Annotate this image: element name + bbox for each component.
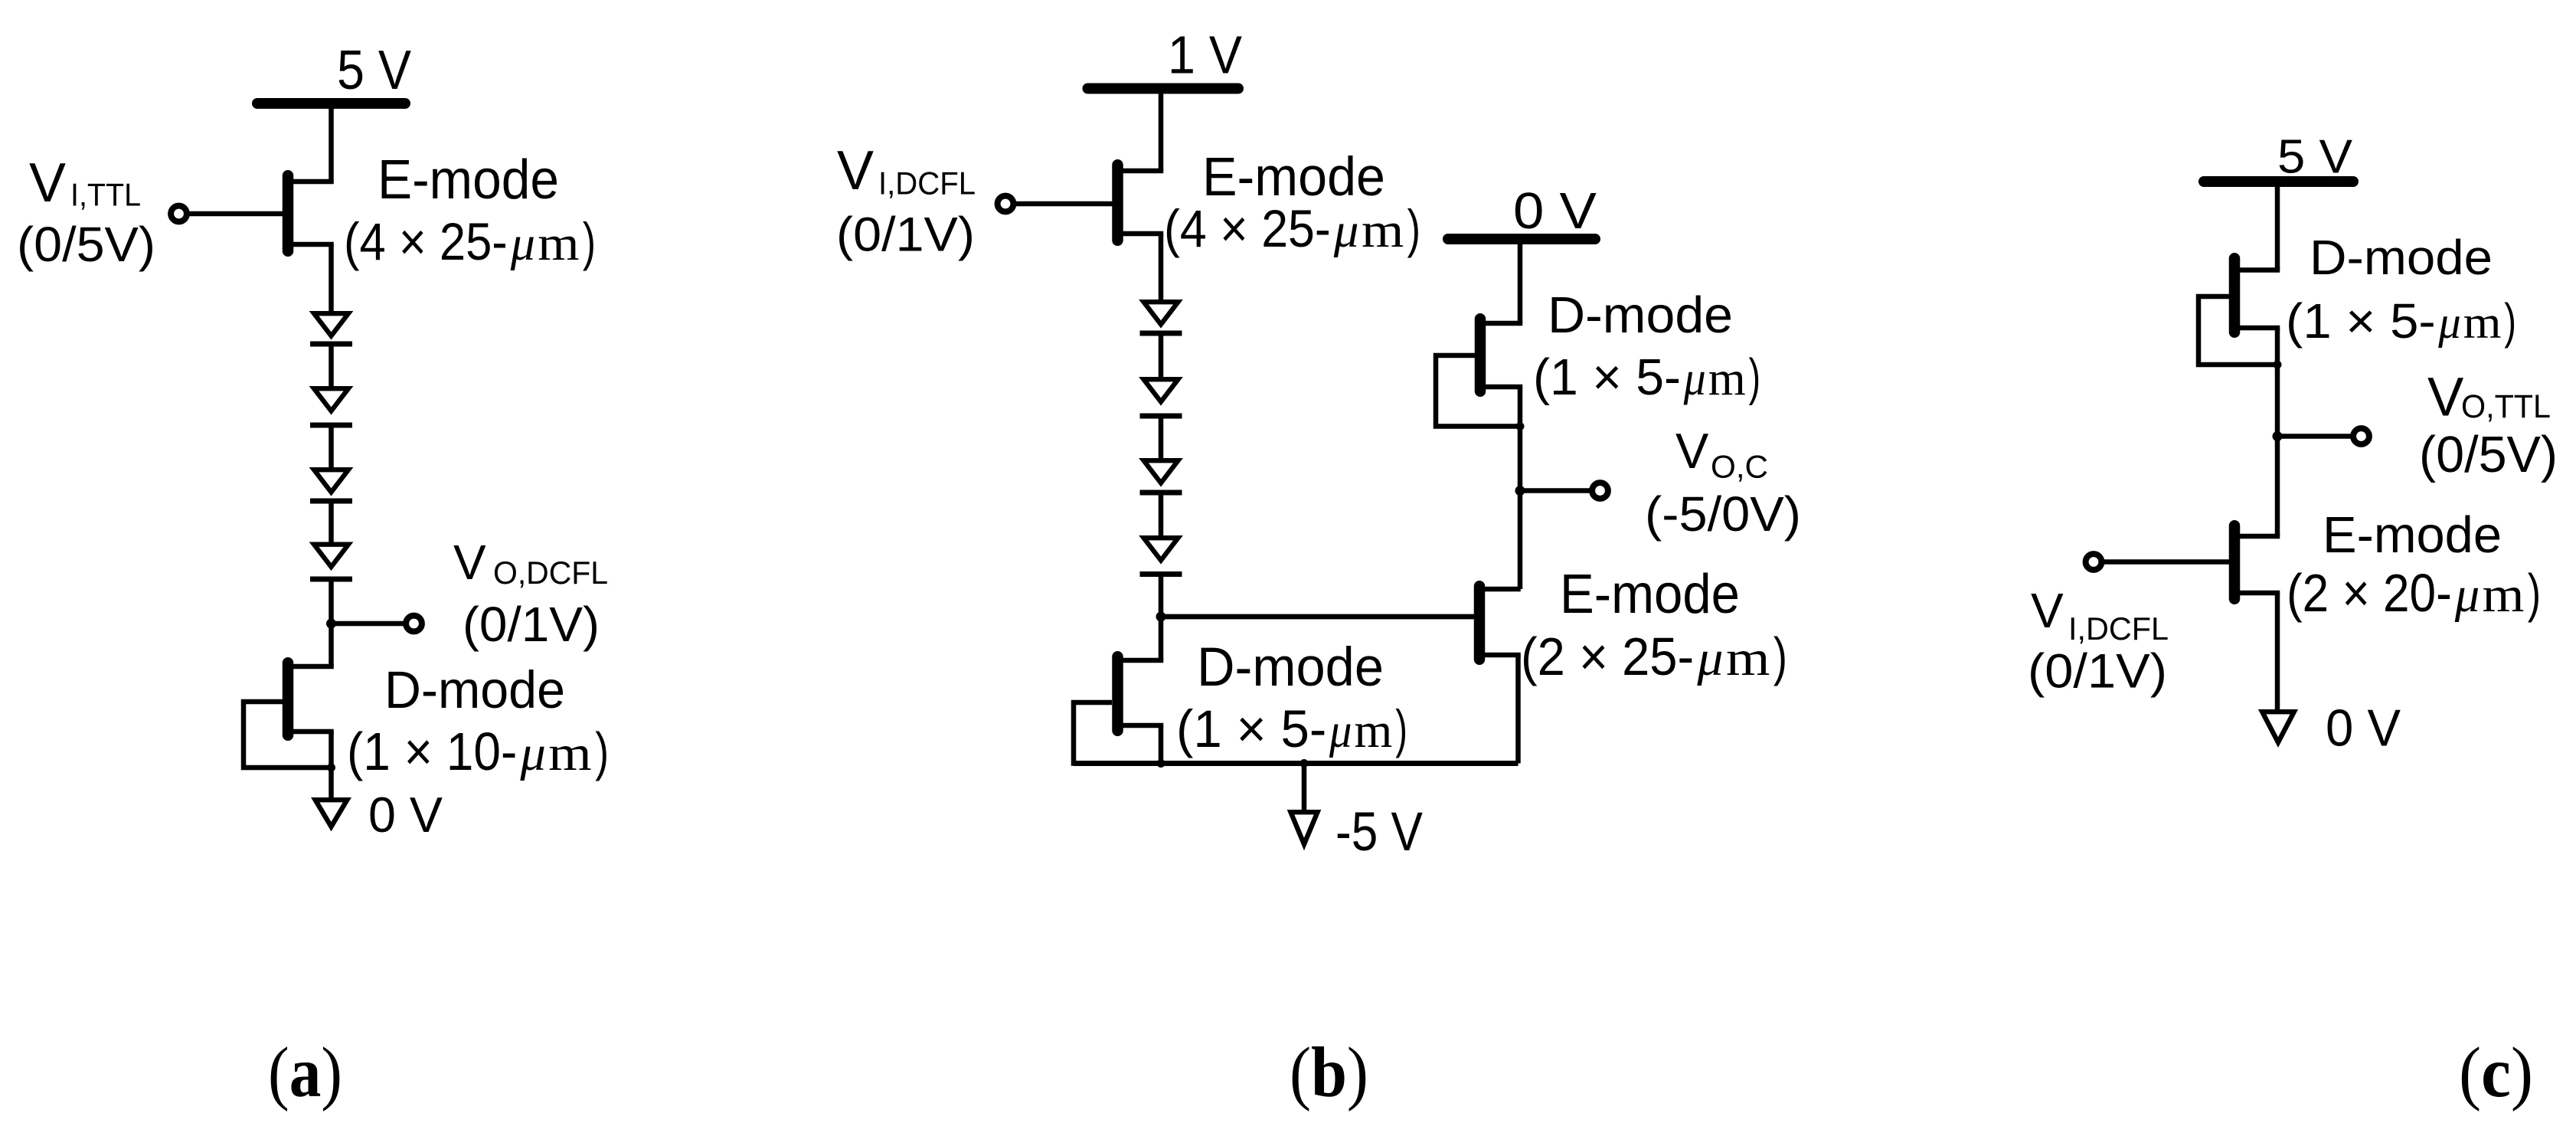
- svg-text:): ): [1407, 199, 1420, 258]
- svg-text:μ: μ: [2437, 297, 2460, 348]
- svg-text:O,C: O,C: [1711, 449, 1768, 485]
- transistor Q7 D-mode 1x5-um (c): [2198, 258, 2280, 365]
- svg-text:-5 V: -5 V: [1335, 802, 1424, 863]
- svg-text:(1 × 5-: (1 × 5-: [1533, 349, 1681, 406]
- svg-text:D-mode: D-mode: [384, 660, 565, 719]
- svg-text:(1 × 5-: (1 × 5-: [2286, 293, 2436, 349]
- power rail +5V (a): [257, 98, 405, 109]
- svg-text:m: m: [1362, 203, 1404, 258]
- svg-text:m: m: [1355, 703, 1393, 758]
- svg-text:(1 × 5-: (1 × 5-: [1176, 699, 1326, 758]
- svg-text:): ): [583, 212, 596, 271]
- wire Q3 source to diode chain (b): [1159, 234, 1164, 302]
- wire rail to Q3 drain: [1159, 89, 1164, 172]
- svg-text:(0/1V): (0/1V): [836, 208, 975, 262]
- svg-text:V: V: [453, 535, 486, 590]
- wire rail to Q7 drain: [2275, 182, 2280, 270]
- node A diode chain / gate junction (b): [1156, 612, 1166, 622]
- svg-text:m: m: [2483, 567, 2525, 623]
- wire to output terminal V_O,TTL: [2277, 434, 2351, 439]
- svg-text:(0/1V): (0/1V): [463, 597, 600, 652]
- svg-text:5 V: 5 V: [2277, 131, 2353, 184]
- wire to output terminal V_O,C: [1520, 488, 1590, 493]
- svg-text:μ: μ: [1329, 703, 1352, 758]
- svg-text:V: V: [837, 140, 874, 201]
- svg-text:D-mode: D-mode: [1197, 637, 1384, 698]
- wire rail to Q5 drain: [1518, 239, 1523, 323]
- label (1 x 5-um) (b): [1176, 699, 1407, 758]
- svg-text:): ): [595, 722, 609, 781]
- power rail +5V (c): [2204, 176, 2353, 187]
- input terminal V_I,TTL: [171, 206, 187, 222]
- svg-text:O,TTL: O,TTL: [2461, 388, 2551, 425]
- svg-text:(a): (a): [268, 1033, 342, 1112]
- node V_O,C junction: [1515, 486, 1525, 496]
- svg-text:0 V: 0 V: [1513, 182, 1597, 240]
- svg-text:0 V: 0 V: [2326, 699, 2401, 758]
- node Q5 gate-source tie (b): [1516, 422, 1525, 431]
- wire D7-D8: [1159, 493, 1164, 538]
- transistor Q4 D-mode 1x5-um (b): [1074, 656, 1163, 763]
- svg-text:m: m: [538, 216, 579, 271]
- svg-text:(4 × 25-: (4 × 25-: [1164, 199, 1331, 258]
- output terminal V_O,C: [1592, 483, 1608, 499]
- svg-text:1 V: 1 V: [1168, 25, 1242, 85]
- transistor Q2 D-mode 1x10-um (a): [244, 663, 334, 768]
- label V_O,DCFL: [453, 535, 608, 591]
- label (2 x 25-um) (b): [1521, 627, 1787, 686]
- input terminal V_I,DCFL (c): [2086, 554, 2102, 570]
- svg-text:m: m: [1708, 352, 1746, 405]
- label (4 x 25-um) (b): [1164, 199, 1420, 258]
- diode D2 (a): [310, 388, 352, 425]
- svg-text:μ: μ: [1696, 630, 1723, 686]
- ground 0V symbol (a): [315, 800, 348, 827]
- diode D4 (a): [310, 545, 352, 579]
- label V_O,TTL: [2427, 368, 2551, 428]
- label V_I,DCFL (b): [837, 140, 976, 201]
- label (1 x 10-um) (a): [347, 722, 609, 781]
- svg-text:(2 × 20-: (2 × 20-: [2287, 563, 2452, 623]
- node V_O,TTL junction: [2273, 431, 2283, 441]
- wire to output terminal (a): [332, 621, 404, 627]
- input terminal V_I,DCFL (b): [998, 196, 1014, 212]
- svg-text:I,TTL: I,TTL: [70, 177, 141, 213]
- svg-text:V: V: [2031, 583, 2064, 638]
- svg-text:(0/5V): (0/5V): [17, 217, 155, 272]
- wire Q8 source to ground (c): [2275, 593, 2280, 711]
- svg-text:E-mode: E-mode: [1560, 564, 1740, 625]
- diode D3 (a): [310, 470, 352, 501]
- svg-text:): ): [1395, 699, 1407, 758]
- svg-text:(0/5V): (0/5V): [2419, 426, 2558, 483]
- transistor Q8 E-mode 2x20-um (c): [2104, 525, 2280, 599]
- transistor Q6 E-mode 2x25-um (b): [1161, 586, 1521, 660]
- svg-text:): ): [2504, 293, 2516, 349]
- svg-text:V: V: [2427, 368, 2464, 428]
- output terminal V_O,DCFL: [406, 616, 422, 632]
- wire Q2 source to ground (a): [329, 732, 334, 799]
- svg-text:μ: μ: [510, 216, 535, 271]
- diode D7 (b): [1140, 460, 1182, 493]
- wire Q7 source to V_O,TTL node and Q8 drain: [2275, 328, 2280, 536]
- svg-text:(0/1V): (0/1V): [2028, 645, 2167, 699]
- svg-text:I,DCFL: I,DCFL: [2068, 611, 2169, 647]
- wire D3-D4: [329, 501, 334, 544]
- svg-text:μ: μ: [1333, 203, 1359, 258]
- svg-text:I,DCFL: I,DCFL: [878, 165, 976, 201]
- svg-text:O,DCFL: O,DCFL: [493, 555, 608, 591]
- svg-text:0 V: 0 V: [368, 787, 443, 843]
- wire stub to -5V ground symbol: [1302, 764, 1307, 812]
- svg-text:μ: μ: [1683, 352, 1706, 405]
- diode D6 (b): [1140, 379, 1182, 416]
- diode D5 (b): [1140, 302, 1182, 333]
- label V_I,TTL: [29, 152, 141, 214]
- svg-text:m: m: [548, 725, 591, 781]
- label (2 x 20-um) (c): [2287, 563, 2541, 623]
- label (1 x 5-um) (b right): [1533, 349, 1760, 406]
- svg-text:μ: μ: [519, 725, 546, 781]
- node -5V stub junction (b): [1300, 759, 1309, 768]
- svg-text:μ: μ: [2454, 567, 2480, 623]
- svg-text:m: m: [2463, 297, 2502, 348]
- wire D6-D7: [1159, 416, 1164, 460]
- wire Q6 source to -5V line: [1515, 655, 1521, 764]
- wire Q1 source to diode chain: [329, 244, 334, 313]
- node Q4 source tie (b): [1157, 759, 1165, 768]
- wire Q5 source to V_O,C node and Q6 drain: [1518, 387, 1523, 589]
- svg-text:(4 × 25-: (4 × 25-: [344, 212, 508, 271]
- wire D8 to node A and Q4 drain: [1159, 575, 1164, 661]
- ground 0V symbol (c): [2262, 712, 2294, 742]
- transistor Q1 E-mode 4x25-um (a): [189, 175, 334, 251]
- node Q2 gate-source tie (a): [327, 764, 335, 772]
- diode D8 (b): [1140, 538, 1182, 574]
- wire D1-D2: [329, 344, 334, 388]
- svg-text:): ): [1773, 627, 1787, 686]
- label V_I,DCFL (c): [2031, 583, 2169, 647]
- label V_O,C: [1675, 423, 1768, 485]
- svg-text:): ): [2528, 563, 2541, 623]
- node V_O,DCFL junction: [326, 619, 336, 629]
- svg-text:V: V: [1675, 423, 1709, 479]
- svg-text:V: V: [29, 152, 66, 214]
- svg-text:(1 × 10-: (1 × 10-: [347, 722, 517, 781]
- svg-text:(c): (c): [2459, 1033, 2533, 1112]
- wire -5V supply line (b): [1074, 761, 1518, 766]
- ground -5V symbol (b): [1291, 812, 1318, 844]
- svg-text:E-mode: E-mode: [2323, 506, 2502, 564]
- label (1 x 5-um) (c): [2286, 293, 2516, 349]
- svg-text:(b): (b): [1290, 1033, 1368, 1112]
- wire D5-D6: [1159, 333, 1164, 379]
- transistor Q5 D-mode 1x5-um (b right): [1436, 319, 1522, 426]
- svg-text:D-mode: D-mode: [2310, 230, 2493, 285]
- label (4 x 25-um) (a): [344, 212, 596, 271]
- svg-text:(2 × 25-: (2 × 25-: [1521, 627, 1694, 686]
- wire D4 to output node and Q2 drain: [329, 579, 334, 666]
- svg-text:(-5/0V): (-5/0V): [1645, 486, 1801, 542]
- diode D1 (a): [310, 313, 352, 344]
- power rail 0V (b right): [1448, 234, 1595, 244]
- wire Q4 source down to -5V line: [1159, 725, 1164, 764]
- svg-text:): ): [1749, 349, 1760, 406]
- svg-text:5 V: 5 V: [337, 40, 411, 101]
- output terminal V_O,TTL: [2353, 428, 2369, 444]
- wire node A to Q6 gate: [1161, 614, 1474, 620]
- transistor Q3 E-mode 4x25-um (b): [1016, 165, 1163, 241]
- power rail +1V (b): [1088, 83, 1239, 94]
- wire D2-D3: [329, 425, 334, 470]
- wire rail to Q1 drain: [329, 103, 334, 182]
- svg-text:m: m: [1726, 630, 1770, 686]
- svg-text:D-mode: D-mode: [1548, 286, 1733, 344]
- node Q7 gate-source tie (c): [2274, 361, 2282, 369]
- svg-text:E-mode: E-mode: [378, 149, 559, 211]
